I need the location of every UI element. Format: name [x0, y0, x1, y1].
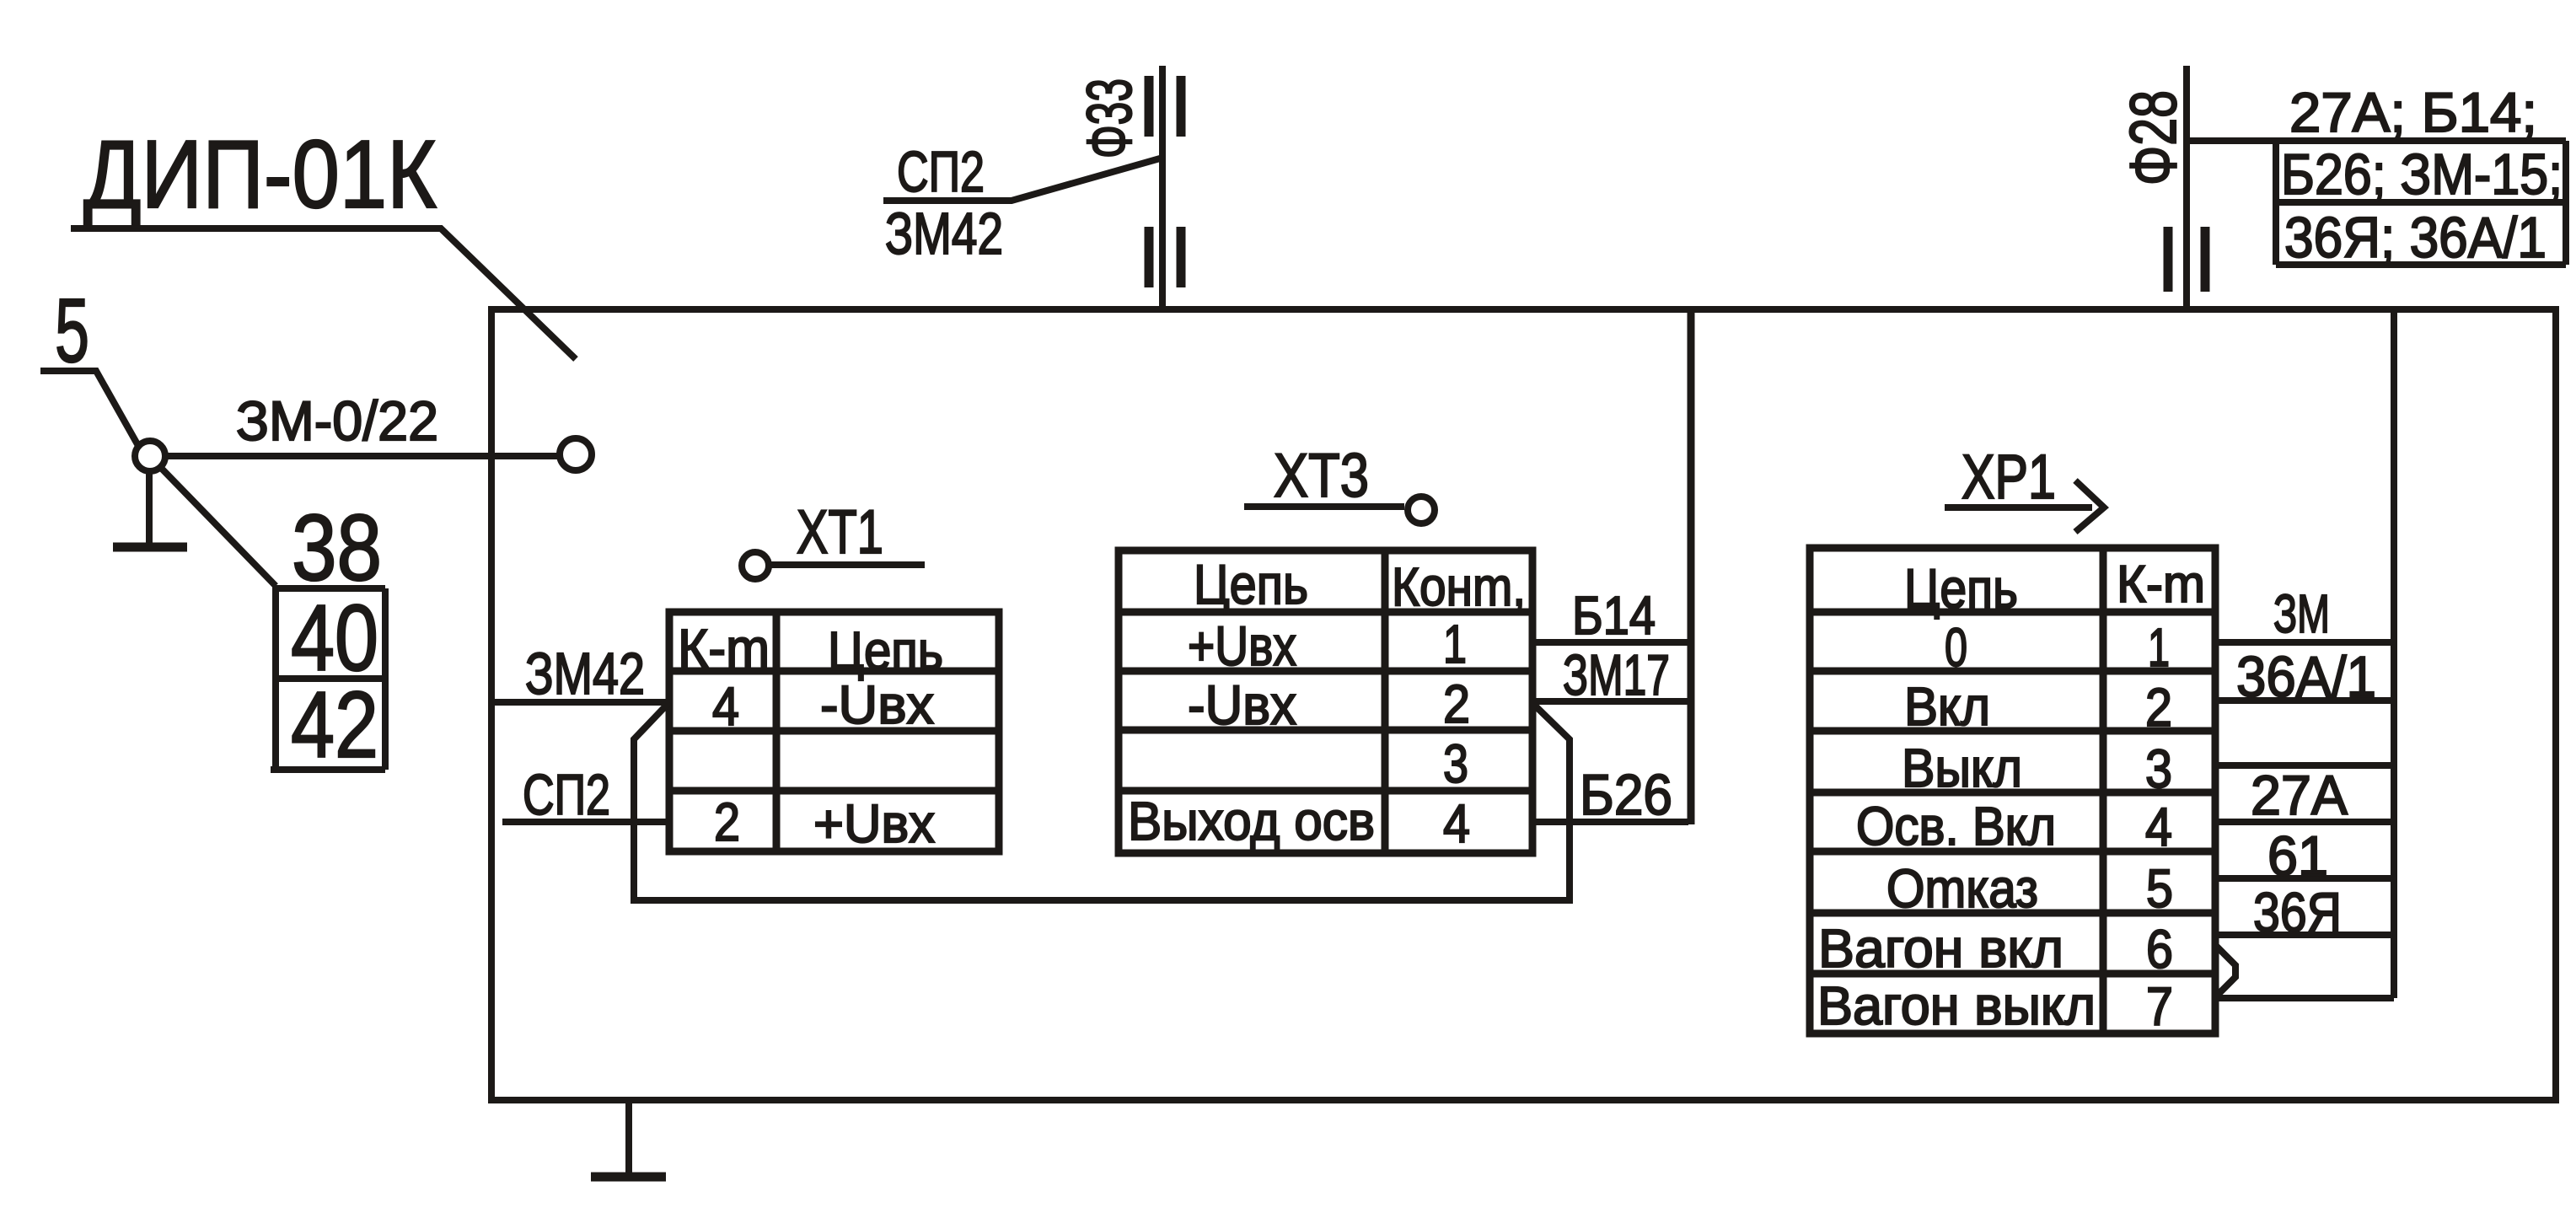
svg-text:ЗМ17: ЗМ17: [1563, 643, 1670, 707]
svg-text:36Я: 36Я: [2253, 881, 2342, 943]
svg-text:XT3: XT3: [1274, 442, 1369, 510]
svg-text:42: 42: [291, 673, 378, 777]
svg-text:61: 61: [2267, 824, 2328, 887]
svg-text:Φ28: Φ28: [2116, 90, 2190, 185]
svg-text:Конm,: Конm,: [1392, 556, 1526, 617]
svg-text:4: 4: [1443, 793, 1470, 854]
svg-text:Б14: Б14: [1572, 585, 1656, 646]
svg-text:К-m: К-m: [678, 618, 770, 679]
svg-text:Выход осв: Выход осв: [1128, 791, 1375, 851]
svg-text:2: 2: [2145, 677, 2172, 738]
svg-text:0: 0: [1945, 617, 1967, 678]
svg-text:Цепь: Цепь: [828, 620, 943, 681]
svg-text:27А: 27А: [2251, 764, 2348, 826]
svg-text:К-m: К-m: [2117, 556, 2205, 614]
svg-text:ЗМ-0/22: ЗМ-0/22: [236, 389, 438, 452]
svg-text:ДИП-01К: ДИП-01К: [83, 121, 437, 228]
svg-text:Осв. Вкл: Осв. Вкл: [1856, 796, 2056, 856]
svg-text:2: 2: [1443, 674, 1470, 734]
svg-text:-Uвх: -Uвх: [1188, 674, 1296, 736]
svg-text:+Uвх: +Uвх: [1188, 615, 1296, 677]
svg-text:XP1: XP1: [1962, 442, 2056, 512]
svg-text:СП2: СП2: [897, 140, 985, 204]
svg-text:Φ33: Φ33: [1074, 78, 1145, 158]
svg-text:XT1: XT1: [797, 498, 883, 566]
svg-text:6: 6: [2146, 919, 2173, 980]
svg-text:3: 3: [2145, 738, 2172, 799]
svg-text:Вагон вкл: Вагон вкл: [1818, 918, 2063, 979]
svg-text:Цепь: Цепь: [1194, 553, 1308, 615]
svg-text:Оmказ: Оmказ: [1886, 858, 2038, 919]
svg-text:Вкл: Вкл: [1904, 676, 1990, 737]
svg-text:Б26; ЗМ-15;: Б26; ЗМ-15;: [2281, 142, 2563, 207]
svg-text:3: 3: [1443, 733, 1468, 794]
svg-text:+Uвх: +Uвх: [813, 793, 935, 854]
svg-text:4: 4: [712, 676, 739, 737]
svg-text:27А; Б14;: 27А; Б14;: [2289, 81, 2537, 143]
svg-text:Вагон выкл: Вагон выкл: [1817, 975, 2096, 1036]
svg-text:ЗМ42: ЗМ42: [525, 641, 645, 706]
svg-text:4: 4: [2145, 797, 2172, 857]
svg-text:-Uвх: -Uвх: [820, 674, 934, 735]
svg-text:38: 38: [292, 496, 382, 600]
svg-text:ЗМ: ЗМ: [2273, 583, 2330, 644]
svg-text:1: 1: [1443, 614, 1467, 674]
svg-text:Б26: Б26: [1580, 763, 1672, 827]
svg-text:7: 7: [2146, 976, 2173, 1037]
svg-text:Выкл: Выкл: [1902, 738, 2022, 798]
svg-text:1: 1: [2148, 617, 2170, 678]
svg-text:36Я; 36А/1: 36Я; 36А/1: [2284, 206, 2546, 270]
svg-text:Цепь: Цепь: [1904, 557, 2018, 620]
svg-text:5: 5: [2146, 858, 2173, 919]
svg-text:2: 2: [714, 792, 740, 852]
svg-text:36А/1: 36А/1: [2236, 645, 2376, 709]
svg-text:5: 5: [55, 279, 89, 381]
svg-text:СП2: СП2: [523, 763, 610, 827]
svg-text:ЗМ42: ЗМ42: [885, 201, 1003, 266]
